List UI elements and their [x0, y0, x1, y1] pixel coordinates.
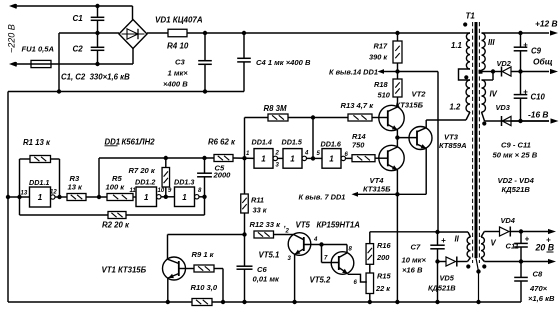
wire R6-DD1.4: [233, 157, 254, 159]
node R15 rail: [368, 300, 372, 304]
svg-text:IV: IV: [490, 90, 498, 99]
winding 1.2: [466, 80, 470, 112]
svg-text:VT5: VT5: [296, 221, 311, 230]
label R11 33 k: [251, 196, 268, 215]
label C1: [73, 14, 84, 23]
svg-text:Т1: Т1: [466, 12, 476, 21]
label +12 V: [535, 19, 558, 29]
svg-text:R4 10: R4 10: [167, 42, 189, 51]
capacitor C9: [514, 33, 528, 72]
node common/pin13: [6, 195, 10, 199]
svg-text:VD2: VD2: [497, 59, 512, 68]
wire R14 to VT4 base: [375, 157, 388, 159]
wire C7 to VD5: [438, 261, 447, 263]
svg-text:FU1 0,5А: FU1 0,5А: [22, 45, 55, 54]
wire IV bottom (-16V): [482, 112, 550, 121]
svg-text:С10: С10: [531, 93, 546, 102]
svg-text:R9 1 к: R9 1 к: [192, 250, 215, 259]
wire: left common drop: [7, 92, 9, 303]
svg-text:R11: R11: [251, 196, 264, 205]
node VT4 emitter rail: [395, 300, 399, 304]
label DD1.1: [29, 178, 49, 187]
wire R3-R5: [86, 196, 107, 198]
phase square III: [479, 70, 483, 74]
wire VD4 out: [511, 231, 549, 233]
svg-text:20 В: 20 В: [535, 243, 555, 253]
gate DD1.1: [30, 187, 56, 207]
label DD1.4: [252, 138, 272, 147]
wire R18 to VT2: [397, 97, 399, 107]
svg-text:2000: 2000: [213, 171, 232, 180]
wire to VT3 base: [397, 137, 417, 139]
svg-text:V: V: [491, 239, 497, 248]
capacitor C1: [91, 6, 105, 33]
label VT5.2: [310, 276, 331, 285]
wire C7 bottom drop: [437, 262, 439, 303]
label C6 0,01 mk: [253, 265, 281, 284]
node screen rail: [476, 300, 480, 304]
label DD1.6: [321, 140, 342, 149]
svg-text:+: +: [441, 236, 446, 245]
capacitor C3: [198, 33, 212, 92]
pin 7: [324, 256, 328, 262]
label R8 3M: [264, 104, 287, 113]
node pin14 junction: [395, 69, 399, 73]
wire R7 top: [165, 158, 167, 168]
gate DD1.6: [322, 149, 345, 169]
wire DD1.2 out: [161, 196, 175, 198]
pin 4: [313, 237, 318, 243]
label R18 510: [374, 80, 391, 100]
svg-text:VT2: VT2: [412, 90, 427, 99]
svg-text:10: 10: [158, 188, 165, 194]
label C8 470 1,6kV: [528, 270, 555, 304]
arrow obshch: [550, 69, 558, 74]
label DD1.3: [174, 178, 194, 187]
label C9-C11 50mk: [493, 141, 538, 160]
node C2 bottom: [95, 62, 99, 66]
node C1/C2 mid: [95, 31, 99, 35]
svg-text:-16 В: -16 В: [528, 110, 548, 120]
wire VT5.1 emitter drop: [294, 254, 296, 302]
resistor R12: [254, 231, 274, 238]
capacitor C10: [514, 72, 528, 122]
wire DD1.6 out: [345, 157, 352, 159]
label K vyv.7 DD1: [299, 193, 346, 202]
label IV: [490, 90, 498, 99]
svg-text:200: 200: [376, 253, 390, 262]
wire DD1.3 out: [199, 196, 205, 198]
node pin13/R1/R2: [17, 195, 21, 199]
svg-text:R15: R15: [377, 272, 391, 281]
wire R13 to VT2 base: [372, 117, 388, 119]
resistor R10 (in rail): [192, 299, 212, 306]
wire screen ground: [476, 258, 479, 302]
node VT4 emitter junction: [395, 192, 399, 196]
svg-text:С9: С9: [531, 47, 542, 56]
node VT2/VT4/VT3: [395, 135, 399, 139]
node out/R1: [57, 195, 61, 199]
svg-text:100 к: 100 к: [106, 183, 126, 192]
label 1.1: [451, 41, 462, 50]
gate DD1.5: [283, 149, 306, 169]
node C3 bottom: [203, 89, 207, 93]
transistor VT5.1: [288, 233, 321, 256]
wire base link down: [322, 245, 339, 263]
svg-text:III: III: [488, 38, 495, 47]
wire R9 right drop: [214, 269, 223, 303]
arrow to pin7: [352, 192, 398, 197]
svg-text:К выв.14 DD1: К выв.14 DD1: [329, 68, 378, 77]
svg-text:КР159НТ1А: КР159НТ1А: [317, 221, 361, 230]
winding III: [482, 33, 486, 70]
svg-text:VD1 КЦ407А: VD1 КЦ407А: [155, 16, 203, 25]
wire R16 top: [370, 232, 438, 244]
wire VT3 emitter: [397, 148, 426, 194]
gate DD1.4: [254, 149, 277, 169]
resistor R7 (vertical): [162, 168, 170, 188]
svg-text:0,01 мк: 0,01 мк: [253, 275, 281, 284]
wire: bridge out to R4: [147, 32, 168, 34]
svg-text:1: 1: [261, 154, 266, 163]
wire II bottom: [457, 258, 470, 262]
wire IV top link: [482, 72, 494, 81]
label R5 100 k: [106, 174, 126, 192]
svg-text:13: 13: [21, 191, 28, 197]
label C3: [163, 58, 188, 89]
node C7 rail: [435, 300, 439, 304]
label Obshch: [533, 57, 553, 67]
input terminal top (~220V line 1): [9, 4, 133, 9]
label FU1 0,5A: [22, 45, 55, 54]
capacitor C2: [91, 33, 105, 64]
label R1 13 k: [23, 138, 51, 147]
wire R8-R13: [313, 117, 348, 119]
resistor R11 (vertical): [241, 194, 249, 213]
label R3 13 k: [68, 174, 84, 192]
label C1,C2 330x1,6 kV: [61, 73, 130, 82]
label C4 1 mk x400 V: [256, 58, 311, 67]
input terminal bottom (~220V line 2): [9, 62, 133, 67]
capacitor C8: [514, 262, 528, 303]
svg-text:R1 13 к: R1 13 к: [23, 138, 51, 147]
wire: lower input rail: [8, 91, 244, 93]
label R2 20 k: [102, 221, 130, 230]
wire -16V: [511, 120, 549, 122]
node VT1 emitter rail: [166, 300, 170, 304]
arrow 20V bottom: [548, 259, 556, 264]
wire: mid rail drop x59: [58, 33, 60, 92]
svg-text:КТ859А: КТ859А: [439, 141, 467, 150]
gate DD1.3: [175, 187, 200, 207]
wire node to VT1 collector: [168, 234, 245, 236]
node screen junction: [476, 269, 480, 273]
node DD1.5/R8 riser: [311, 156, 315, 160]
pin 12: [50, 190, 57, 196]
svg-text:С3: С3: [175, 58, 185, 67]
wire row158: [99, 157, 214, 159]
svg-text:1: 1: [38, 193, 43, 202]
resistor R17 (vertical): [393, 41, 402, 63]
winding IV: [482, 80, 486, 112]
node VT5 bases: [319, 242, 323, 246]
fuse FU1: [31, 60, 51, 67]
node C4 top: [242, 31, 246, 35]
pin 3: [288, 256, 292, 262]
svg-text:×1,6 кВ: ×1,6 кВ: [528, 294, 555, 303]
phase dot 1.1: [463, 22, 467, 26]
node R17 top: [395, 31, 399, 35]
svg-text:10 мк×: 10 мк×: [402, 256, 427, 265]
transformer core dashed: [473, 22, 480, 263]
arrow -16V: [551, 118, 559, 123]
phase dot II: [466, 264, 470, 268]
svg-text:2: 2: [275, 151, 280, 157]
label C2: [73, 45, 84, 54]
label + 20V: [546, 236, 551, 245]
label VD2-VD4 KD521V: [498, 176, 535, 194]
label ~220 V: [7, 24, 17, 53]
wire R7 bottom: [165, 187, 167, 197]
label T1: [466, 12, 476, 21]
wire: main top rail: [187, 32, 470, 34]
pin 13: [21, 191, 28, 197]
label VD3: [496, 103, 511, 112]
label R6 62 k: [208, 138, 236, 147]
svg-text:33 к: 33 к: [253, 206, 268, 215]
label VT5.1: [259, 251, 280, 260]
svg-text:510: 510: [378, 91, 391, 100]
node C11 top: [519, 229, 523, 233]
wire VT1 emitter drop: [167, 278, 169, 303]
label R16 200: [376, 241, 391, 262]
label + C7: [441, 236, 446, 245]
node C11 bottom: [519, 259, 523, 263]
label DD1.2: [135, 178, 155, 187]
pin 2: [275, 151, 280, 157]
node C7 top: [435, 230, 439, 234]
label III: [488, 38, 495, 47]
svg-text:1: 1: [144, 193, 149, 202]
svg-text:1: 1: [329, 154, 334, 163]
svg-text:С11: С11: [506, 242, 519, 251]
resistor R15 (vertical): [366, 273, 374, 294]
wire R12 to VT5.1: [274, 234, 294, 236]
svg-text:1: 1: [182, 193, 187, 202]
wire VT4 collector: [396, 138, 398, 147]
label + C11: [506, 235, 530, 251]
svg-text:DD1.6: DD1.6: [321, 140, 342, 149]
svg-text:1.1: 1.1: [451, 41, 462, 50]
wire III bottom: [482, 70, 494, 72]
transistor VT1: [163, 257, 195, 280]
node VT1/R12/C6: [242, 232, 246, 236]
svg-text:R2 20 к: R2 20 к: [102, 221, 130, 230]
svg-text:R10 3,0: R10 3,0: [191, 283, 218, 292]
svg-text:13 к: 13 к: [68, 183, 84, 192]
svg-text:390 к: 390 к: [369, 53, 388, 62]
winding II: [467, 237, 470, 257]
svg-text:С2: С2: [73, 45, 84, 54]
label VD5 KD521V: [428, 274, 456, 293]
label R17 390 k: [369, 42, 388, 62]
wire R16-R15: [369, 264, 371, 273]
svg-text:VT5.2: VT5.2: [310, 276, 331, 285]
transistor VT3: [409, 127, 432, 150]
label K vyv.14 DD1: [329, 68, 378, 77]
wire R15 bottom: [369, 294, 371, 303]
arrow +12V: [550, 30, 558, 35]
wire III top (+12V): [482, 32, 550, 34]
resistor R4: [168, 29, 187, 37]
pin 3: [276, 163, 280, 169]
svg-text:4: 4: [304, 151, 309, 157]
winding 1.1: [466, 33, 470, 69]
svg-text:КД521В: КД521В: [502, 185, 531, 194]
phase dot V: [482, 264, 486, 268]
svg-text:С4 1 мк ×400 В: С4 1 мк ×400 В: [256, 58, 311, 67]
wire junction to T1 tap: [398, 72, 439, 233]
svg-text:С8: С8: [533, 270, 543, 279]
label DD1.5: [282, 138, 303, 147]
svg-text:22 к: 22 к: [375, 284, 391, 293]
node C1 top: [95, 4, 99, 8]
pin 1: [246, 151, 250, 157]
pin 11: [130, 188, 137, 194]
arrow 20V top: [548, 229, 556, 234]
label R15 22 k: [375, 272, 391, 294]
label R12 33 k: [250, 220, 287, 229]
svg-text:DD1: DD1: [105, 138, 121, 147]
wire: top input down to bridge: [132, 6, 134, 20]
svg-text:2: 2: [285, 229, 290, 235]
svg-text:12: 12: [50, 190, 57, 196]
svg-text:+: +: [523, 88, 528, 97]
wire VT1 collector riser: [167, 235, 169, 260]
diode VD5: [446, 257, 457, 267]
label VT3 KT859A: [439, 133, 467, 151]
svg-text:R16: R16: [377, 241, 391, 250]
resistor R5: [107, 194, 133, 201]
svg-text:1.2: 1.2: [450, 103, 462, 112]
capacitor C5: [197, 158, 212, 197]
svg-text:КТ315Б: КТ315Б: [363, 185, 391, 194]
label C7 10mk 16V: [402, 243, 427, 275]
wire R17 top: [397, 33, 399, 41]
label V: [491, 239, 497, 248]
pin 10: [158, 188, 165, 194]
pin 6: [354, 280, 358, 286]
wire DD1.5 out: [306, 157, 322, 159]
svg-text:С9 - С11: С9 - С11: [501, 141, 531, 150]
resistor R3: [67, 194, 86, 201]
phase dot 1.2: [464, 75, 468, 79]
svg-text:Общ: Общ: [533, 57, 553, 67]
transistor VT4: [379, 145, 404, 170]
wire DD1.4 out: [277, 157, 283, 159]
svg-text:R6 62 к: R6 62 к: [208, 138, 236, 147]
wire: C1/C2 mid rail: [59, 32, 119, 34]
pin 6: [345, 152, 349, 158]
label R9 1 k: [192, 250, 215, 259]
diode VD4: [500, 227, 511, 237]
resistor R14: [352, 155, 375, 162]
pin 4: [304, 151, 309, 157]
svg-text:~220 В: ~220 В: [7, 24, 17, 53]
resistor R18 (vertical): [393, 79, 402, 97]
label -16 V: [528, 110, 548, 120]
wire 1.2 bottom: [466, 112, 470, 120]
wire R2 row: [20, 197, 205, 215]
wire: bottom input up to bridge: [132, 49, 134, 65]
svg-text:С1: С1: [73, 14, 84, 23]
label II: [455, 235, 460, 244]
svg-text:1: 1: [290, 154, 295, 163]
capacitor C7: [430, 232, 444, 262]
svg-text:К выв. 7 DD1: К выв. 7 DD1: [299, 193, 346, 202]
label VD1 KTs407A: [155, 16, 203, 25]
wire V top: [481, 232, 500, 238]
node VD2 anode: [491, 69, 495, 73]
diode VD2: [502, 67, 512, 77]
resistor R8: [268, 114, 288, 121]
wire R17-R18 junction: [397, 63, 399, 79]
node C5/R2 riser: [202, 195, 206, 199]
pin 5: [317, 151, 321, 157]
capacitor C11: [514, 232, 528, 262]
svg-text:470×: 470×: [529, 284, 548, 293]
svg-text:DD1.2: DD1.2: [135, 178, 155, 187]
wire obsh: [493, 71, 549, 73]
node C3 top: [203, 31, 207, 35]
wire VT4 emitter drop: [396, 170, 398, 302]
winding V: [481, 237, 484, 257]
wire R5-DD1.2: [133, 196, 136, 198]
node C9 top: [518, 31, 522, 35]
label R10 3,0: [191, 283, 218, 292]
diode VD3: [502, 116, 512, 126]
node R7 bottom: [164, 195, 168, 199]
svg-text:VD3: VD3: [496, 103, 511, 112]
pin 9: [168, 188, 172, 194]
pin 2: [285, 229, 290, 235]
wire II top: [438, 232, 471, 237]
resistor R6: [214, 155, 233, 162]
svg-text:R12 33 к: R12 33 к: [250, 220, 282, 229]
svg-text:1 мк×: 1 мк×: [168, 69, 189, 78]
wire collector link: [322, 245, 348, 253]
label R7 20 k: [129, 166, 156, 175]
svg-text:×400 В: ×400 В: [163, 80, 188, 89]
resistor R2: [108, 212, 126, 219]
wire riser DD1.5out: [312, 118, 314, 159]
node VT5.1 emitter rail: [292, 300, 296, 304]
gate DD1.2: [136, 187, 161, 207]
svg-text:50 мк × 25 В: 50 мк × 25 В: [493, 151, 538, 160]
bridge rectifier VD1: [119, 20, 147, 49]
label VT2 KT315B: [396, 90, 427, 110]
label R13 4,7 k: [341, 101, 375, 110]
transformer core screen bar: [475, 22, 478, 258]
svg-text:С6: С6: [257, 265, 267, 274]
wire DD1.1 out: [55, 196, 67, 198]
node C10 bottom: [518, 119, 522, 123]
svg-text:750: 750: [352, 141, 365, 150]
wire R11 bottom: [244, 213, 246, 235]
wire V bottom: [481, 258, 549, 262]
wire R8 right: [288, 117, 313, 119]
capacitor C6: [237, 235, 253, 303]
